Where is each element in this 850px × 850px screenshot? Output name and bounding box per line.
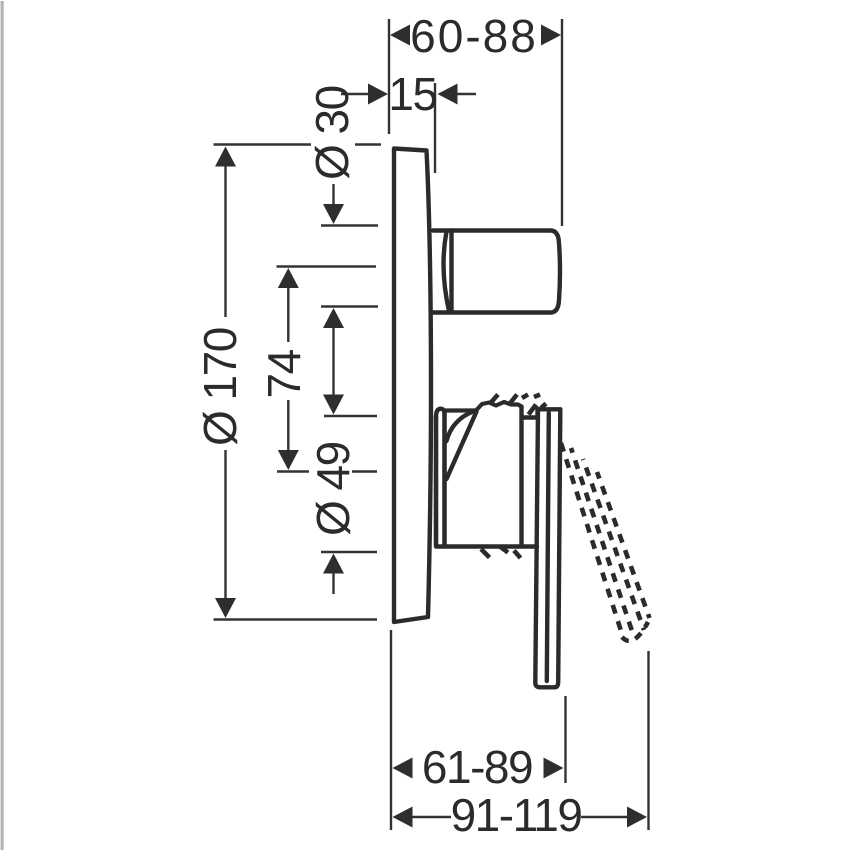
svg-text:Ø 30: Ø 30 (306, 86, 358, 180)
svg-text:Ø 170: Ø 170 (194, 328, 246, 446)
svg-text:61-89: 61-89 (422, 741, 532, 793)
svg-text:15: 15 (388, 68, 436, 120)
svg-text:60-88: 60-88 (410, 10, 538, 62)
svg-text:91-119: 91-119 (451, 789, 582, 841)
svg-text:74: 74 (258, 349, 310, 398)
svg-text:Ø 49: Ø 49 (307, 442, 359, 536)
